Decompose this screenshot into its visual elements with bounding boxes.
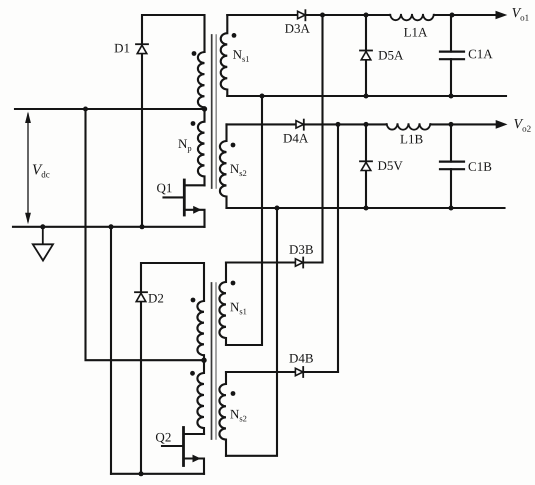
wire D4B rail <box>226 371 338 373</box>
wire node B drop D4A junction to D4B <box>337 124 339 372</box>
svg-text:Q2: Q2 <box>155 429 171 444</box>
svg-text:D1: D1 <box>114 40 130 55</box>
inductor L1B <box>387 123 431 129</box>
svg-text:D2: D2 <box>148 290 164 305</box>
wire ground rail <box>13 226 205 228</box>
wire T2 ground rail <box>111 473 204 475</box>
wire Vo1 rail <box>227 14 497 16</box>
wire Ns1(T1) return to Ns1(T2) <box>226 96 262 345</box>
polarity dot T2 reset winding <box>191 298 196 303</box>
wire Vdc+ mid rail <box>15 108 205 110</box>
diode D3A <box>298 10 306 20</box>
wire D2 anode to T2 ground <box>140 302 142 474</box>
node output1 return to Ns1(T2) <box>260 94 265 99</box>
svg-text:Q1: Q1 <box>157 180 173 195</box>
transformer T2 core <box>211 283 213 439</box>
svg-text:Ns2: Ns2 <box>230 406 247 423</box>
svg-text:L1A: L1A <box>404 25 428 40</box>
node Vdc+ to T2 feed <box>83 107 88 112</box>
transistor Q1 <box>164 180 205 227</box>
node D3A-D3B junction <box>320 13 325 18</box>
wire output2 return rail <box>227 207 505 209</box>
node D4A-D4B junction <box>336 122 341 127</box>
wire D5V branch <box>365 124 367 208</box>
wire D3B rail <box>226 261 323 263</box>
svg-text:Vo1: Vo1 <box>512 6 530 23</box>
svg-text:Np: Np <box>178 136 192 153</box>
wire node A drop D3A junction to D3B <box>321 15 323 263</box>
Vdc measurement arrow <box>25 112 31 225</box>
arrow output Vo1 <box>496 11 508 20</box>
polarity dot Np (T1) <box>191 121 196 126</box>
wire output1 return rail <box>227 95 506 97</box>
winding Ns2 (T2) <box>219 372 226 456</box>
node ground to T2 feed <box>109 224 114 229</box>
inductor L1A <box>390 14 434 20</box>
winding primary Np <box>198 109 205 185</box>
wire ground feed to T2 <box>110 227 112 474</box>
winding Ns2 (T1) <box>220 124 227 208</box>
svg-text:Vo2: Vo2 <box>514 117 532 134</box>
svg-text:L1B: L1B <box>400 131 423 146</box>
node output2 return to Ns2(T2) <box>275 206 280 211</box>
diode D5V <box>360 161 372 170</box>
node ground symbol junction <box>40 224 45 229</box>
node D2 anode junction <box>139 471 144 476</box>
node D5V cathode junction <box>364 122 369 127</box>
wire D1 clamp top <box>142 15 205 52</box>
transformer T1 core <box>211 35 213 188</box>
polarity dot Ns1 (T2) <box>231 281 236 286</box>
polarity dot Np (T2) <box>190 371 195 376</box>
wire D5A branch <box>365 15 367 96</box>
svg-text:Ns2: Ns2 <box>230 161 247 178</box>
diode D1 <box>136 44 148 53</box>
node D1 anode junction <box>140 224 145 229</box>
diode D2 <box>135 292 147 301</box>
wire C1B branch <box>450 124 452 208</box>
node D5A anode junction <box>364 94 369 99</box>
transistor Q2 <box>162 428 204 474</box>
polarity dot Ns2 (T1) <box>231 143 236 148</box>
node C1A return junction <box>449 94 454 99</box>
wire Ns2(T1) return to Ns2(T2) <box>226 208 277 456</box>
wire D1 anode to ground <box>141 54 143 227</box>
winding T1 reset (upper primary) <box>198 52 205 109</box>
capacitor C1B <box>440 162 464 170</box>
diode D4B <box>295 367 303 377</box>
node D5A cathode junction <box>364 13 369 18</box>
node Vo2 LC junction <box>449 122 454 127</box>
diode D4A <box>296 120 304 130</box>
diode D5A <box>360 51 372 60</box>
polarity dot Ns1 (T1) <box>232 33 237 38</box>
winding primary Np (T2) <box>197 360 204 434</box>
wire D2 clamp top <box>141 263 204 301</box>
winding Ns1 (T1) <box>221 15 228 96</box>
winding Ns1 (T2) <box>219 263 226 346</box>
svg-text:D4A: D4A <box>283 131 309 146</box>
svg-text:D5V: D5V <box>378 158 404 173</box>
winding T2 reset (upper primary) <box>197 301 204 360</box>
polarity dot T1 reset winding <box>192 51 197 56</box>
svg-text:D3A: D3A <box>285 21 311 36</box>
wire C1A branch <box>450 15 452 96</box>
node Vo1 LC junction <box>450 13 455 18</box>
svg-text:Vdc: Vdc <box>32 162 50 179</box>
node C1B return junction <box>449 206 454 211</box>
diode D3B <box>295 258 303 268</box>
svg-text:Ns1: Ns1 <box>230 299 247 316</box>
wire Vo2 rail <box>227 123 497 125</box>
arrow output Vo2 <box>496 120 508 129</box>
svg-text:C1B: C1B <box>468 159 492 174</box>
ground <box>33 227 53 261</box>
svg-text:D4B: D4B <box>289 351 314 366</box>
svg-text:D3B: D3B <box>289 242 314 257</box>
node D5V anode junction <box>364 206 369 211</box>
capacitor C1A <box>440 52 464 60</box>
svg-text:D5A: D5A <box>378 48 404 63</box>
wire Vdc+ feed to T2 primary <box>86 109 205 360</box>
svg-text:Ns1: Ns1 <box>233 47 250 64</box>
svg-text:C1A: C1A <box>468 46 493 61</box>
node Vdc+ to Np tap <box>202 106 207 111</box>
node Vdc+ to Np tap (T2) <box>201 358 206 363</box>
polarity dot Ns2 (T2) <box>231 391 236 396</box>
